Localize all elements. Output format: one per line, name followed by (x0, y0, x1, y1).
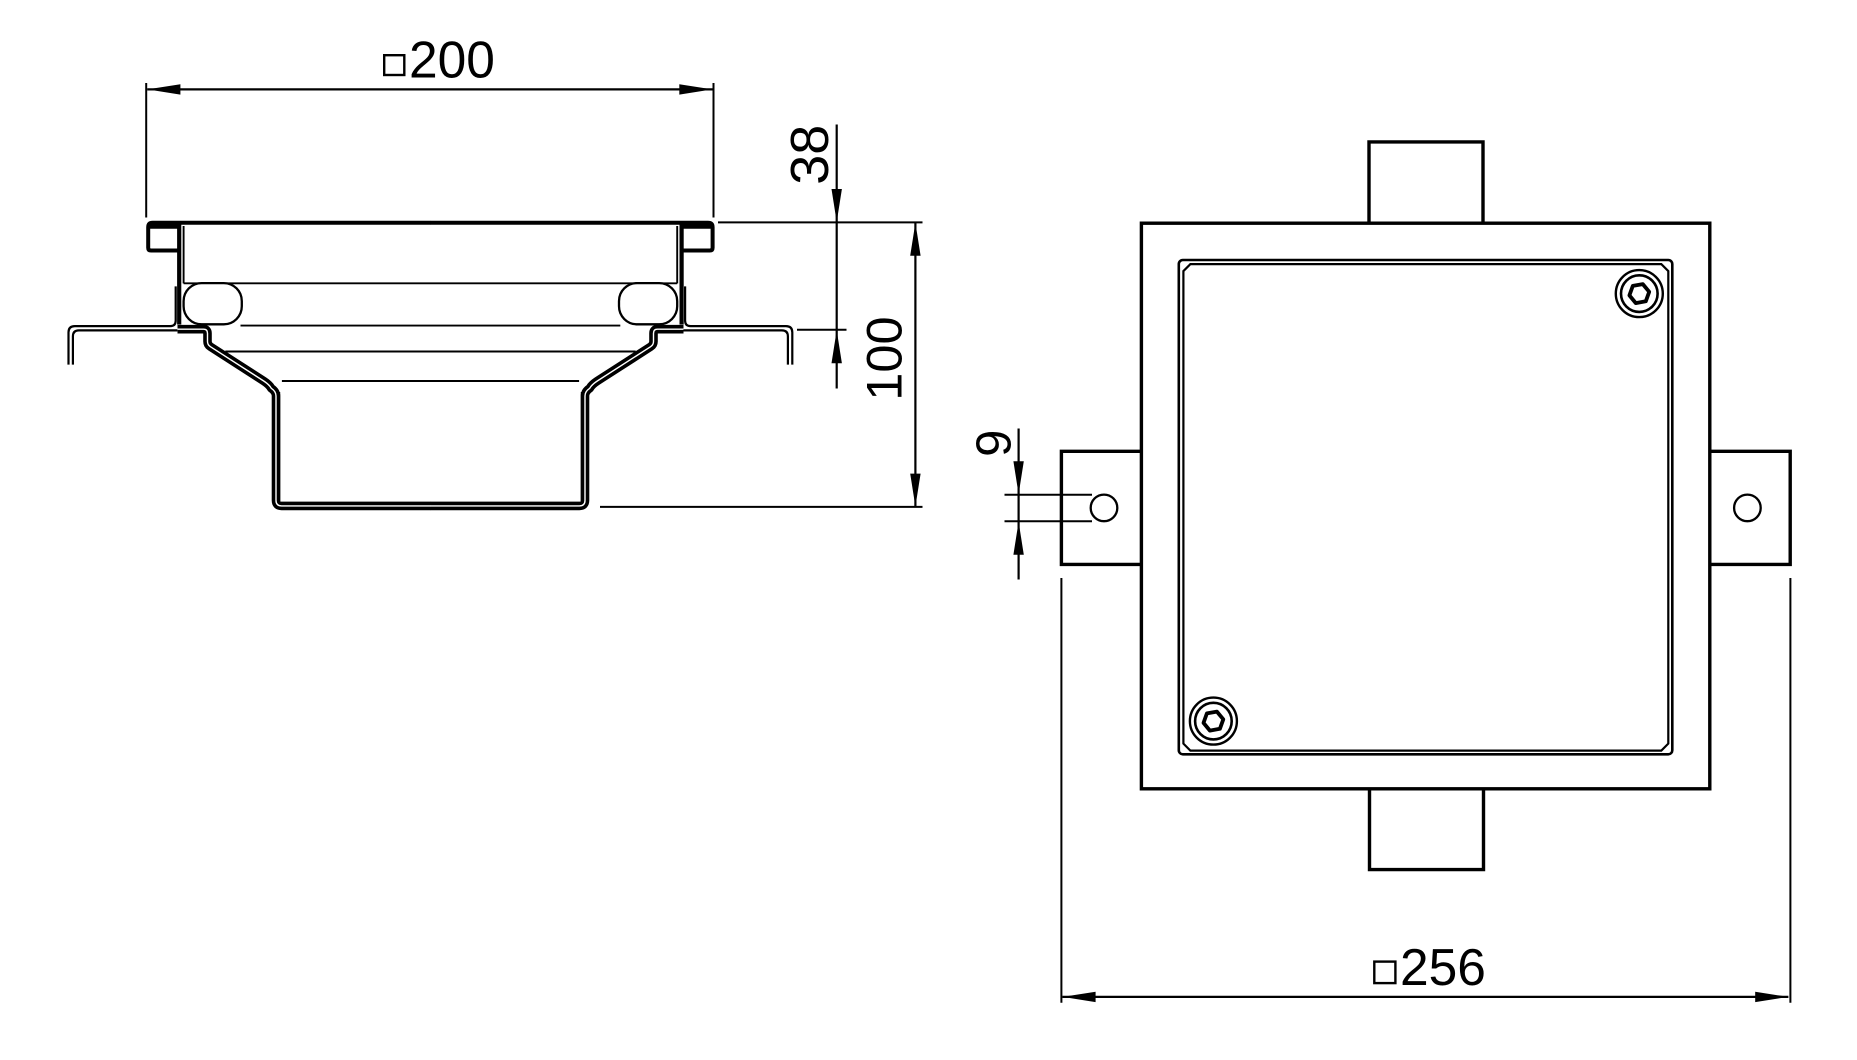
dimension 256: extension line right (1789, 578, 1791, 1003)
cover outer outline (1179, 260, 1673, 754)
dimension 256: square symbol (1374, 962, 1395, 984)
svg-text:100: 100 (856, 316, 913, 400)
screw top-right: outer circle (1616, 270, 1663, 317)
white core of ribbon right (430, 329, 683, 506)
body step + slope + outlet spigot, black ribbon right half (430, 329, 683, 506)
frame wall left (thick) (177, 225, 181, 325)
anchor flange right, inner surface (683, 330, 788, 364)
anchor flange left, outer surface (69, 286, 176, 364)
gasket left (o-ring section) (184, 283, 242, 324)
bottom fixing tab (1370, 789, 1484, 870)
dimension 100: extension line at spigot bottom (600, 506, 923, 508)
dimension 9: extension line top (hole tangent) (1005, 494, 1093, 496)
dimension 100: dimension line (914, 222, 916, 507)
dimension 200: dimension line (147, 88, 712, 90)
frame inner bottom shelf line (184, 282, 678, 284)
interior far-side line lower (282, 380, 579, 382)
left tab hole (1091, 495, 1118, 522)
interior far-side line upper (225, 351, 635, 353)
dimension 9: lower arrowhead (points up) (1013, 522, 1023, 555)
outer frame square (1141, 223, 1709, 789)
shelf line between gaskets (241, 325, 621, 327)
svg-text:38: 38 (780, 125, 840, 185)
dimension 200: right arrowhead (679, 84, 712, 94)
anchor flange left, inner surface (73, 330, 177, 364)
dimension 200: square symbol (384, 55, 404, 75)
dimension 38: extension line at rim top (718, 221, 923, 223)
svg-text:256: 256 (1400, 938, 1486, 996)
dimension 200: extension line left (145, 83, 147, 218)
screw bottom-left: head circle (1195, 703, 1232, 740)
screw top-right: head circle (1621, 275, 1658, 312)
svg-text:200: 200 (409, 31, 495, 89)
dimension 100: upper arrowhead (points up) (910, 223, 920, 256)
dimension 200: left arrowhead (147, 84, 180, 94)
rim underside at left hook (149, 224, 179, 228)
dimension 200: extension line right (713, 83, 715, 218)
dimension 9: extension line bottom (hole tangent) (1005, 520, 1093, 522)
svg-text:9: 9 (968, 430, 1022, 457)
dimension 256: dimension line (1062, 996, 1788, 998)
screw bottom-left: outer circle (1190, 698, 1237, 745)
dimension 9: dimension line (1017, 429, 1019, 580)
left fixing tab (1061, 451, 1142, 564)
screw bottom-left: hex socket (1204, 712, 1224, 731)
body step + slope + outlet spigot, black ribbon left half (178, 329, 431, 506)
right tab hole (1734, 495, 1761, 522)
white core of ribbon left (178, 329, 431, 506)
dimension 38: upper arrowhead (points down) (832, 189, 842, 222)
right fixing tab (1710, 451, 1791, 564)
frame wall right (thick) (679, 225, 683, 325)
dimension 38: dimension line (836, 125, 838, 389)
screw top-right: hex socket (1629, 284, 1649, 303)
anchor flange right, outer surface (685, 286, 792, 364)
rim underside at right hook (682, 224, 712, 228)
dimension 256: left arrowhead (1063, 992, 1096, 1002)
gasket right (o-ring section) (619, 283, 677, 324)
cover inner outline with corner chamfers (1183, 264, 1668, 750)
dimension 256: right arrowhead (1755, 992, 1788, 1002)
inner thin line of spigot wall left (278, 392, 280, 501)
dimension 9: upper arrowhead (points down) (1013, 461, 1023, 494)
inner thin line of spigot wall right (581, 392, 583, 501)
rim top + edge hook left (148, 223, 430, 251)
frame wall inner surface line left (183, 226, 185, 283)
dimension 38: extension line at flange bottom (797, 329, 847, 331)
dimension 256: extension line left (1060, 578, 1062, 1003)
rim top + edge hook right (430, 223, 712, 251)
frame wall inner surface line right (676, 226, 678, 283)
top fixing tab (1369, 142, 1483, 223)
dimension 38: lower arrowhead (points up) (832, 330, 842, 363)
dimension 100: lower arrowhead (points down) (910, 474, 920, 507)
